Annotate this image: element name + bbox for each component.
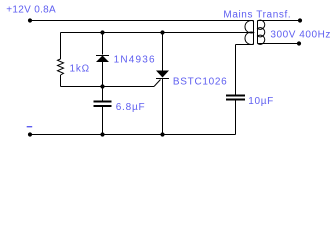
transformer T1 primary lobes xyxy=(245,21,254,45)
label minus terminal xyxy=(27,126,33,127)
node terminal secondary bottom xyxy=(297,41,301,45)
node terminal secondary top xyxy=(298,18,302,22)
wire primary bottom lead xyxy=(236,44,254,46)
wire SCR gate diagonal xyxy=(154,80,161,87)
capacitor C2 10uF plates xyxy=(226,95,245,97)
svg-text:Mains Transf.: Mains Transf. xyxy=(223,10,291,21)
wire right branch vertical (10uF) xyxy=(235,45,237,95)
transformer T1 secondary bar xyxy=(257,21,259,44)
wire secondary top lead xyxy=(258,20,301,22)
node junction rail2/diode xyxy=(100,30,104,34)
svg-text:+12V 0.8A: +12V 0.8A xyxy=(6,5,56,16)
node junction bottom/SCR xyxy=(160,132,164,136)
diode D1 1N4936 triangle xyxy=(96,56,109,63)
svg-text:1N4936: 1N4936 xyxy=(114,55,156,66)
wire bottom rail xyxy=(30,134,236,136)
transformer T1 secondary lobes xyxy=(258,20,265,44)
capacitor C1 6.8uF plates xyxy=(94,101,112,103)
diode D1 1N4936 cathode bar xyxy=(96,55,109,57)
svg-text:6.8µF: 6.8µF xyxy=(116,102,146,113)
node junction rail2/SCR xyxy=(160,30,164,34)
transformer T1 primary bar xyxy=(253,21,255,45)
thyristor SCR BSTC1026 cathode bar xyxy=(156,78,169,80)
thyristor SCR BSTC1026 triangle xyxy=(156,71,169,78)
svg-text:300V 400Hz: 300V 400Hz xyxy=(270,29,331,40)
svg-text:1kΩ: 1kΩ xyxy=(70,63,90,74)
wire SCR branch vertical xyxy=(162,33,164,71)
node terminal + (left top) xyxy=(28,18,32,22)
wire top rail +12V xyxy=(30,20,254,22)
node terminal - (left bottom) xyxy=(28,132,32,136)
svg-text:BSTC1026: BSTC1026 xyxy=(173,77,228,88)
wire secondary bottom lead xyxy=(258,43,300,45)
wire second rail (tap rail) xyxy=(61,32,254,34)
wire diode branch vertical xyxy=(102,33,104,55)
svg-text:10µF: 10µF xyxy=(248,96,274,107)
wire gate horizontal xyxy=(61,86,155,88)
node junction bottom/cap xyxy=(100,132,104,136)
node junction gate/diode xyxy=(100,84,104,88)
resistor R 1k zigzag xyxy=(58,59,64,75)
wire resistor branch vertical xyxy=(60,33,62,60)
